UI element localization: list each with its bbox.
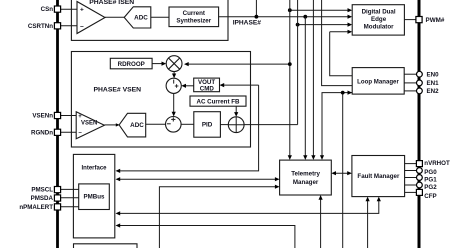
svg-text:RDROOP: RDROOP <box>118 61 145 68</box>
wire fault manager to PG0 <box>405 170 417 172</box>
wire vertical 258.6 down and left to interface <box>116 85 259 173</box>
wire VOUT CMD input from vertical 258.6 <box>220 83 259 87</box>
wire IPHASE# line to modulator <box>219 15 353 19</box>
svg-text:+: + <box>78 114 82 120</box>
pin PG2 <box>417 182 438 191</box>
svg-text:PHASE# ISEN: PHASE# ISEN <box>89 0 134 6</box>
svg-text:Manager: Manager <box>293 179 319 186</box>
multiplier circle X <box>166 56 182 72</box>
svg-text:CMD: CMD <box>200 85 215 92</box>
pin nPMALERT <box>19 204 60 211</box>
svg-text:PMSDA: PMSDA <box>31 195 54 202</box>
pin RGNDn <box>31 129 61 136</box>
bus wire V5 to loop manager <box>322 0 353 86</box>
svg-text:PMSCL: PMSCL <box>31 187 53 194</box>
svg-text:PWM#: PWM# <box>426 17 445 24</box>
AC Current FB box <box>190 96 246 106</box>
svg-text:PG2: PG2 <box>424 184 437 191</box>
pin PG0 <box>417 168 438 177</box>
wire interface to telemetry double arrow <box>116 177 280 181</box>
svg-text:RGNDn: RGNDn <box>31 129 53 136</box>
node IPHASE# label <box>233 19 262 26</box>
bus wire V2 vertical + adder output corner <box>297 0 299 125</box>
op-amp current sense amplifier <box>77 2 105 34</box>
svg-text:PG1: PG1 <box>424 176 437 183</box>
wire loop manager bottom line with V5b branch to telemetry <box>320 91 352 160</box>
block PHASE# ISEN box <box>71 0 228 40</box>
pin CSRTNn <box>28 23 61 30</box>
wire loop manager to EN1 <box>404 82 417 84</box>
box2 lower block cut off <box>74 244 138 248</box>
wire ADC1 to current synthesizer <box>151 16 169 18</box>
chip boundary left <box>56 0 59 248</box>
svg-text:CFP: CFP <box>424 193 436 200</box>
svg-text:Telemetry: Telemetry <box>291 171 320 178</box>
junction dot on V3 at IPHASE <box>303 15 307 19</box>
interface box <box>73 154 114 238</box>
svg-text:VSEN: VSEN <box>81 120 97 126</box>
summer2 circle with minus and plus <box>166 117 182 133</box>
ADC1 pentagon <box>124 7 151 28</box>
bus wire V4 <box>311 0 315 160</box>
wire summer2 to PID <box>181 123 194 125</box>
wire modulator to PWM# pin <box>404 19 417 21</box>
wire V7 riser from below to loop manager line <box>341 91 345 248</box>
wire fault bottom riser left <box>366 197 370 248</box>
bus wire V1 <box>288 0 292 160</box>
block PHASE# VSEN box <box>71 52 250 148</box>
wire modulator input D from V6 corner <box>330 30 353 34</box>
telemetry manager box <box>280 160 332 195</box>
wire adder output to V2 <box>244 124 298 126</box>
svg-text:IPHASE#: IPHASE# <box>233 19 262 26</box>
wire multiplier to summer1 <box>172 72 176 79</box>
svg-text:PID: PID <box>202 122 213 129</box>
op-amp VSEN differential amplifier <box>76 112 104 139</box>
PMBus box <box>79 184 110 210</box>
fault manager box <box>352 156 405 197</box>
wire P2 interface from below <box>116 223 295 248</box>
wire ADC2 to summer2 <box>146 123 166 125</box>
wire PMSCL to PMBus <box>61 188 79 190</box>
wire VSENn to VSEN amp <box>61 115 78 117</box>
svg-text:CSn: CSn <box>41 6 54 13</box>
wire CSn to amp <box>61 8 79 10</box>
svg-text:−: − <box>80 23 84 30</box>
wire nPMALERT to PMBus <box>61 206 79 208</box>
chip boundary right <box>418 0 421 248</box>
svg-text:nVRHOT: nVRHOT <box>424 160 450 167</box>
summer1 circle <box>166 78 181 93</box>
svg-text:Edge: Edge <box>371 16 387 23</box>
RDROOP box <box>110 58 152 69</box>
svg-text:PHASE# VSEN: PHASE# VSEN <box>93 87 141 94</box>
svg-text:nPMALERT: nPMALERT <box>19 204 53 211</box>
pin EN0 <box>417 71 440 78</box>
svg-text:ADC: ADC <box>130 122 144 129</box>
wire PMSDA to PMBus <box>61 197 79 199</box>
wire fault manager to CFP <box>405 191 417 193</box>
wire modulator input C from V2 <box>296 23 353 27</box>
pin VSENn <box>32 112 60 119</box>
pin nVRHOT <box>416 160 450 167</box>
wire RGNDn to VSEN amp <box>61 131 78 133</box>
svg-text:Current: Current <box>183 10 205 17</box>
wire PID to adder <box>220 124 228 126</box>
svg-text:EN0: EN0 <box>427 71 440 78</box>
current synthesizer box <box>169 7 219 27</box>
svg-text:Loop Manager: Loop Manager <box>357 78 399 85</box>
pin PMSDA <box>31 195 61 202</box>
wire vertical stub V0 to IPHASE line <box>255 0 259 19</box>
pin EN2 <box>417 88 440 95</box>
pin CFP <box>416 189 436 200</box>
bus wire V6 loop manager to modulator <box>330 32 353 76</box>
svg-text:EN1: EN1 <box>427 80 440 87</box>
wire modulator input A from V1 <box>288 8 352 12</box>
svg-text:VSENn: VSENn <box>32 113 53 120</box>
svg-text:EN2: EN2 <box>427 88 440 95</box>
wire P1 interface to fault manager <box>116 197 381 216</box>
svg-text:PMBus: PMBus <box>84 194 106 201</box>
ADC2 pentagon <box>119 113 146 137</box>
wire fault manager to PG2 <box>405 184 417 186</box>
wire VSEN amp to ADC2 <box>104 123 119 126</box>
svg-text:Digital Dual: Digital Dual <box>362 8 396 15</box>
wire fault manager to PG1 <box>405 177 417 179</box>
wire telemetry to fault double arrow <box>331 171 352 175</box>
pin EN1 <box>417 80 440 87</box>
wire VOUT CMD to summer1 <box>181 84 193 88</box>
svg-text:Synthesizer: Synthesizer <box>176 18 211 25</box>
wire telemetry bottom riser <box>319 195 323 248</box>
wire loop manager to EN0 <box>404 73 417 75</box>
svg-text:Fault Manager: Fault Manager <box>357 173 400 180</box>
VOUT CMD box <box>194 78 220 92</box>
wire fault manager to nVRHOT <box>405 163 417 165</box>
wire summer1 to summer2 <box>172 93 176 116</box>
wire droop gain input from V1 to multiplier <box>184 62 292 66</box>
pin CSn <box>41 6 61 13</box>
PID box <box>194 112 221 138</box>
wire loop manager to EN2 <box>404 90 417 92</box>
svg-text:Interface: Interface <box>81 166 107 172</box>
wire RDROOP to multiplier <box>152 62 166 66</box>
pin PWM# <box>416 17 445 24</box>
adder circle crosshair <box>228 117 244 133</box>
pin PMSCL <box>31 187 60 194</box>
digital dual edge modulator U-MOD <box>352 5 404 35</box>
svg-text:+: + <box>80 7 84 14</box>
wire CSRTNn to amp <box>61 25 79 27</box>
bus wire V3 <box>303 17 307 160</box>
pin PG1 <box>417 175 438 184</box>
wire amp to ADC1 <box>105 16 124 18</box>
svg-text:AC Current FB: AC Current FB <box>197 99 240 106</box>
svg-text:−: − <box>78 131 82 137</box>
svg-text:ADC: ADC <box>134 15 148 22</box>
wire riser to telemetry <box>159 185 279 248</box>
svg-text:CSRTNn: CSRTNn <box>28 23 53 30</box>
wire AC Current FB to adder <box>234 106 238 117</box>
svg-text:Modulator: Modulator <box>364 23 394 30</box>
loop manager box <box>352 68 404 95</box>
svg-text:PG0: PG0 <box>424 169 437 176</box>
